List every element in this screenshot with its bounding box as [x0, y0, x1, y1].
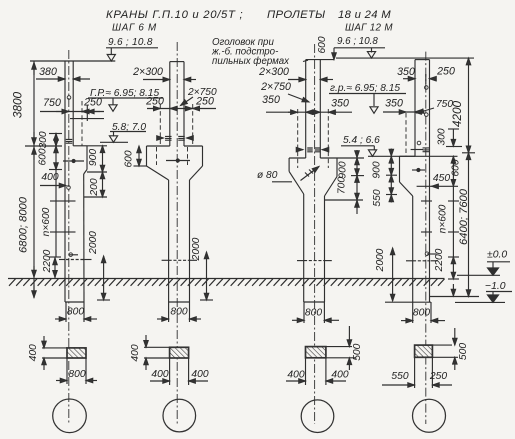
svg-text:750: 750 [43, 97, 61, 109]
svg-text:250: 250 [429, 371, 447, 382]
svg-text:2000: 2000 [191, 237, 202, 261]
svg-text:2×750: 2×750 [260, 81, 291, 93]
svg-text:450: 450 [433, 173, 450, 184]
svg-text:800: 800 [170, 307, 187, 318]
svg-text:ПРОЛЕТЫ: ПРОЛЕТЫ [267, 9, 325, 21]
svg-text:400: 400 [130, 344, 141, 361]
svg-text:800: 800 [305, 308, 322, 319]
svg-text:4200: 4200 [450, 100, 464, 127]
svg-text:ø 80: ø 80 [257, 170, 278, 181]
svg-text:900: 900 [372, 161, 383, 178]
svg-text:550: 550 [372, 189, 383, 206]
svg-text:800: 800 [413, 308, 430, 319]
svg-text:6400; 7600: 6400; 7600 [458, 188, 470, 245]
svg-text:350: 350 [385, 98, 403, 110]
svg-text:г.р.≈ 6.95; 8.15: г.р.≈ 6.95; 8.15 [330, 83, 400, 94]
svg-text:2×300: 2×300 [132, 66, 163, 78]
svg-text:400: 400 [331, 370, 348, 381]
svg-text:−1.0: −1.0 [485, 281, 506, 292]
svg-text:2×300: 2×300 [258, 66, 289, 78]
svg-text:400: 400 [191, 369, 208, 380]
svg-text:400: 400 [28, 344, 39, 361]
svg-text:5.4 ; 6.6: 5.4 ; 6.6 [343, 135, 380, 146]
svg-text:ШАГ 6 М: ШАГ 6 М [112, 23, 157, 34]
svg-text:КРАНЫ Г.П.10 и 20/5Т ;: КРАНЫ Г.П.10 и 20/5Т ; [106, 9, 243, 21]
svg-text:300: 300 [437, 128, 448, 145]
svg-text:n×600: n×600 [438, 204, 449, 233]
svg-text:380: 380 [39, 66, 57, 78]
svg-text:300: 300 [38, 131, 49, 148]
svg-text:ШАГ 12 М: ШАГ 12 М [345, 23, 393, 34]
svg-text:±0.0: ±0.0 [487, 250, 507, 261]
svg-text:900: 900 [88, 149, 99, 166]
svg-text:9.6 ; 10.8: 9.6 ; 10.8 [108, 37, 153, 48]
svg-text:2200: 2200 [434, 248, 445, 272]
svg-text:550: 550 [391, 371, 408, 382]
svg-text:800: 800 [67, 307, 84, 318]
svg-text:2000: 2000 [88, 231, 99, 255]
svg-text:800: 800 [68, 369, 85, 380]
svg-text:9.6 ; 10.8: 9.6 ; 10.8 [337, 36, 378, 47]
svg-text:6800; 8000: 6800; 8000 [18, 196, 30, 253]
svg-text:500: 500 [458, 343, 469, 360]
svg-text:400: 400 [151, 369, 168, 380]
svg-text:250: 250 [145, 96, 164, 108]
svg-text:700: 700 [337, 177, 348, 194]
svg-text:400: 400 [287, 370, 304, 381]
svg-text:2200: 2200 [42, 249, 53, 273]
svg-text:500: 500 [352, 343, 363, 360]
svg-text:350: 350 [331, 98, 349, 110]
svg-text:600: 600 [317, 36, 328, 53]
svg-text:n×600: n×600 [41, 207, 52, 236]
svg-text:200: 200 [89, 178, 100, 196]
svg-text:2000: 2000 [375, 248, 386, 272]
svg-text:600: 600 [124, 150, 135, 167]
svg-text:18 и 24 М: 18 и 24 М [338, 9, 391, 21]
svg-text:350: 350 [397, 66, 415, 78]
svg-text:3800: 3800 [11, 91, 25, 118]
svg-text:2×750: 2×750 [187, 87, 217, 98]
svg-text:250: 250 [436, 66, 455, 78]
svg-text:900: 900 [338, 161, 349, 178]
svg-text:600: 600 [38, 148, 49, 165]
svg-text:350: 350 [262, 94, 280, 106]
svg-text:600: 600 [451, 159, 462, 176]
